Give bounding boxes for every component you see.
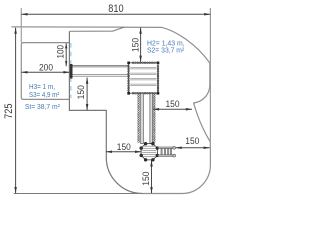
bead chain left: [138, 95, 140, 143]
extension line: 725 top (horizontal): [12, 26, 125, 28]
dimension 150 (horizontal, right of ladder): [176, 147, 210, 150]
svg-text:810: 810: [108, 3, 123, 15]
ladder right of octagon: [158, 146, 175, 157]
svg-text:150: 150: [131, 38, 141, 52]
dimension 150 (horizontal, left of octagon tower): [106, 150, 141, 153]
svg-text:S2= 33,7 m²: S2= 33,7 m²: [147, 45, 185, 54]
dimension 200: [21, 71, 69, 74]
bead chain right: [153, 95, 155, 143]
svg-text:St= 38,7 m²: St= 38,7 m²: [25, 102, 60, 111]
tower platform (square with post beads): [127, 62, 159, 95]
post beads bottom edge: [132, 92, 155, 94]
post beads left edge: [128, 66, 130, 92]
corner posts: [127, 62, 159, 95]
extension line: 810 left (vertical): [20, 8, 22, 43]
slide (left of tower): rails: [72, 65, 128, 76]
dimension 150 (vertical, above tower): [139, 28, 142, 62]
slide end bar: [70, 64, 73, 79]
svg-text:150: 150: [166, 99, 180, 109]
vertex post circles: [140, 142, 159, 161]
extension line: 810 right (vertical): [209, 8, 211, 149]
dimension 150 (horizontal, right of tunnel): [153, 108, 192, 111]
tunnel / net bridge down from tower: [138, 93, 155, 143]
dimension 725 left: [14, 28, 17, 194]
extension line: 725 bottom (horizontal): [14, 193, 143, 195]
dimension 810 top: [21, 13, 210, 16]
safety zone outline: left slide-exit strip: [21, 43, 69, 100]
svg-text:S3= 4,9 m²: S3= 4,9 m²: [29, 90, 60, 99]
svg-text:150: 150: [117, 142, 131, 152]
dimension 100 (vertical, above slide): [65, 43, 67, 66]
svg-text:200: 200: [39, 63, 53, 73]
svg-text:100: 100: [56, 45, 66, 59]
safety zone outline: inner cutout edge: [69, 31, 142, 193]
svg-text:150: 150: [185, 136, 199, 146]
dimension 150 (vertical, below slide): [86, 78, 89, 111]
deck slats: [130, 68, 156, 86]
safety zone outline: top edge, right corner curve, right edge, bottom: [69, 27, 210, 193]
svg-text:725: 725: [3, 104, 15, 119]
cyan dashed slide-exit marker line: [70, 43, 72, 98]
dimension 150 (vertical, below octagon tower): [150, 160, 153, 193]
octagonal lower tower: [140, 142, 159, 161]
post beads right edge: [157, 66, 159, 92]
post beads top edge: [132, 62, 155, 64]
hatch slats: [142, 146, 156, 157]
svg-text:150: 150: [76, 85, 86, 99]
svg-text:150: 150: [141, 171, 151, 185]
